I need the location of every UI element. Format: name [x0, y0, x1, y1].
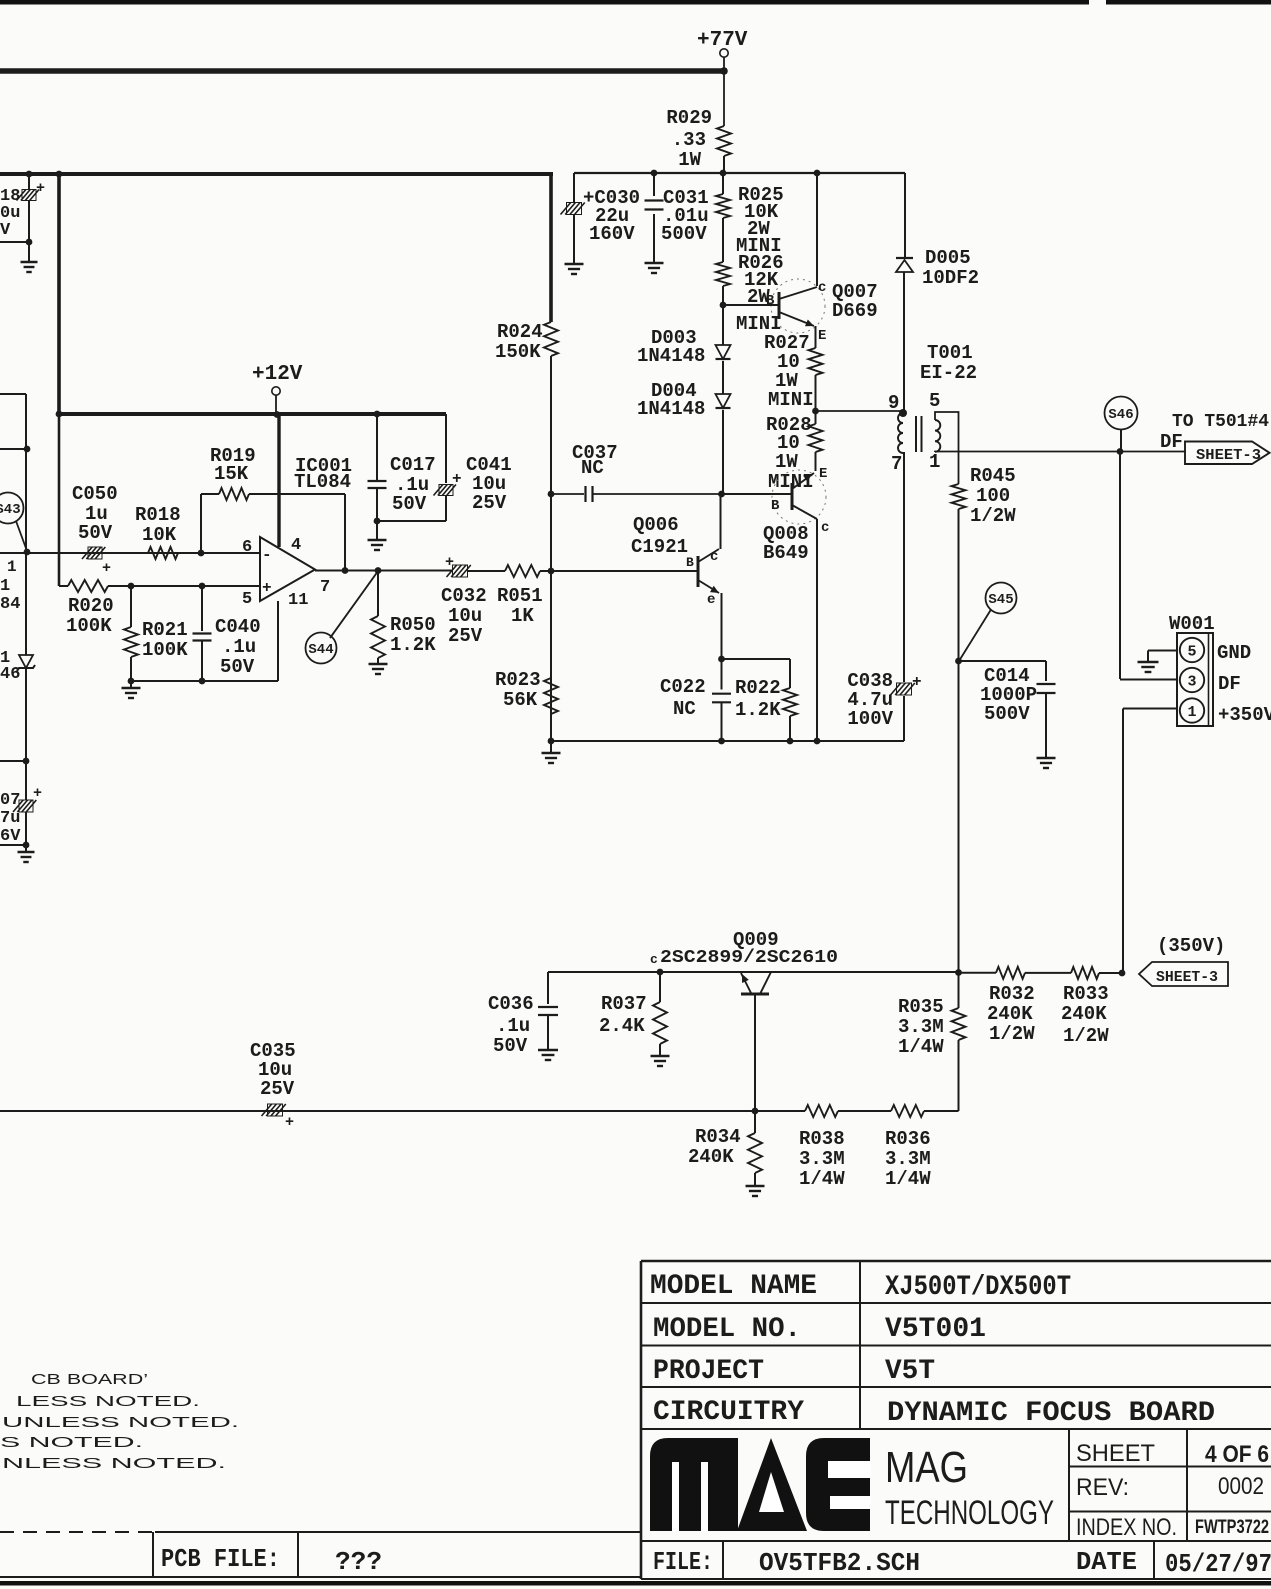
svg-text:3.3M: 3.3M	[898, 1016, 944, 1038]
svg-text:160V: 160V	[589, 223, 635, 245]
svg-text:1N4148: 1N4148	[637, 398, 705, 420]
svg-text:FILE:: FILE:	[653, 1547, 713, 1577]
svg-text:50V: 50V	[220, 656, 255, 678]
svg-text:+: +	[445, 554, 454, 571]
svg-text:CIRCUITRY: CIRCUITRY	[653, 1397, 804, 1428]
svg-text:10u: 10u	[448, 605, 482, 627]
svg-text:2.4K: 2.4K	[599, 1015, 645, 1037]
svg-text:1/4W: 1/4W	[885, 1168, 931, 1190]
svg-text:15K: 15K	[214, 463, 249, 485]
svg-text:+: +	[262, 579, 272, 597]
svg-text:+: +	[452, 470, 462, 488]
svg-text:TECHNOLOGY: TECHNOLOGY	[885, 1494, 1054, 1532]
svg-text:1/4W: 1/4W	[799, 1168, 845, 1190]
svg-text:S46: S46	[1108, 407, 1133, 423]
svg-text:R050: R050	[390, 614, 436, 636]
svg-text:MINI: MINI	[768, 389, 814, 411]
svg-text:.1u: .1u	[222, 636, 256, 658]
svg-text:REV:: REV:	[1076, 1474, 1129, 1501]
svg-text:Q006: Q006	[633, 514, 679, 536]
svg-text:???: ???	[335, 1547, 382, 1577]
svg-text:T001: T001	[927, 342, 973, 364]
svg-text:R033: R033	[1063, 983, 1109, 1005]
svg-text:c: c	[710, 549, 718, 565]
svg-text:5: 5	[929, 390, 940, 412]
svg-text:E: E	[819, 466, 827, 482]
svg-text:3.3M: 3.3M	[799, 1148, 845, 1170]
svg-text:.33: .33	[672, 129, 706, 151]
svg-text:R020: R020	[68, 595, 114, 617]
svg-text:INDEX NO.: INDEX NO.	[1076, 1514, 1177, 1541]
svg-text:B: B	[766, 293, 775, 309]
svg-text:C050: C050	[72, 483, 118, 505]
svg-text:C036: C036	[488, 993, 534, 1015]
svg-text:+: +	[912, 673, 922, 691]
svg-text:4: 4	[291, 536, 301, 555]
svg-text:S43: S43	[0, 502, 21, 518]
svg-text:1/2W: 1/2W	[970, 505, 1016, 527]
svg-text:R021: R021	[142, 619, 188, 641]
svg-text:+: +	[33, 785, 42, 802]
svg-text:7: 7	[891, 453, 902, 475]
svg-text:1K: 1K	[511, 605, 534, 627]
svg-text:PROJECT: PROJECT	[653, 1356, 764, 1387]
svg-text:240K: 240K	[987, 1003, 1033, 1025]
svg-text:+: +	[102, 560, 111, 577]
svg-text:SHEET-3: SHEET-3	[1156, 969, 1218, 986]
svg-text:6V: 6V	[0, 827, 21, 846]
svg-text:100K: 100K	[142, 639, 188, 661]
svg-text:DF: DF	[1218, 673, 1241, 695]
svg-text:(350V): (350V)	[1157, 935, 1225, 957]
svg-text:S NOTED.: S NOTED.	[0, 1434, 143, 1451]
svg-text:S44: S44	[308, 642, 333, 658]
svg-text:-: -	[262, 546, 272, 564]
svg-text:XJ500T/DX500T: XJ500T/DX500T	[885, 1272, 1071, 1303]
svg-text:1/4W: 1/4W	[898, 1036, 944, 1058]
svg-text:NC: NC	[581, 457, 604, 479]
svg-text:10K: 10K	[142, 524, 177, 546]
svg-text:B: B	[686, 555, 694, 570]
svg-text:0002: 0002	[1218, 1473, 1264, 1500]
svg-text:R045: R045	[970, 465, 1016, 487]
svg-text:7: 7	[320, 578, 330, 597]
svg-text:R032: R032	[989, 983, 1035, 1005]
svg-text:25V: 25V	[260, 1078, 295, 1100]
svg-text:1/2W: 1/2W	[1063, 1025, 1109, 1047]
svg-text:.1u: .1u	[496, 1015, 530, 1037]
svg-text:MODEL NAME: MODEL NAME	[650, 1271, 817, 1302]
svg-text:5: 5	[242, 590, 252, 609]
svg-text:SHEET: SHEET	[1076, 1440, 1155, 1467]
svg-text:10DF2: 10DF2	[922, 267, 979, 289]
svg-text:V: V	[0, 221, 11, 240]
svg-text:1: 1	[929, 451, 940, 473]
svg-text:56K: 56K	[503, 689, 538, 711]
svg-text:C022: C022	[660, 676, 706, 698]
svg-text:MODEL NO.: MODEL NO.	[653, 1314, 801, 1345]
svg-text:R022: R022	[735, 677, 781, 699]
svg-text:D005: D005	[925, 247, 971, 269]
svg-text:B649: B649	[763, 542, 809, 564]
svg-text:DF: DF	[1160, 431, 1183, 453]
svg-text:MAG: MAG	[885, 1443, 968, 1492]
svg-text:DYNAMIC FOCUS BOARD: DYNAMIC FOCUS BOARD	[887, 1398, 1215, 1429]
svg-text:+: +	[36, 180, 45, 197]
svg-text:R029: R029	[666, 107, 712, 129]
svg-text:1: 1	[1187, 704, 1196, 721]
svg-text:3: 3	[1187, 674, 1196, 691]
svg-text:1.2K: 1.2K	[735, 699, 781, 721]
svg-text:25V: 25V	[472, 492, 507, 514]
svg-text:TO T501#4: TO T501#4	[1172, 412, 1269, 432]
svg-text:25V: 25V	[448, 625, 483, 647]
svg-text:240K: 240K	[1061, 1003, 1107, 1025]
svg-text:1: 1	[0, 577, 10, 596]
svg-text:+12V: +12V	[252, 363, 303, 386]
svg-text:V5T001: V5T001	[885, 1314, 986, 1345]
svg-text:R035: R035	[898, 996, 944, 1018]
svg-text:1W: 1W	[775, 451, 798, 473]
svg-text:R036: R036	[885, 1128, 931, 1150]
svg-text:S45: S45	[988, 592, 1013, 608]
svg-text:e: e	[707, 592, 715, 608]
svg-text:DATE: DATE	[1076, 1547, 1137, 1577]
svg-text:c: c	[818, 280, 826, 296]
svg-text:+: +	[285, 1114, 294, 1131]
svg-text:1N4148: 1N4148	[637, 345, 705, 367]
svg-text:240K: 240K	[688, 1146, 734, 1168]
svg-text:500V: 500V	[984, 703, 1030, 725]
svg-text:1W: 1W	[678, 149, 701, 171]
svg-text:W001: W001	[1169, 613, 1215, 635]
svg-text:100V: 100V	[847, 708, 893, 730]
svg-text:R018: R018	[135, 504, 181, 526]
svg-text:R023: R023	[495, 669, 541, 691]
svg-text:150K: 150K	[495, 341, 541, 363]
svg-text:1.2K: 1.2K	[390, 634, 436, 656]
svg-text:GND: GND	[1217, 642, 1251, 664]
svg-text:100: 100	[976, 485, 1010, 507]
svg-text:CB BOARD’: CB BOARD’	[31, 1371, 148, 1388]
svg-text:V5T: V5T	[885, 1356, 935, 1387]
svg-text:OV5TFB2.SCH: OV5TFB2.SCH	[759, 1548, 920, 1578]
svg-text:11: 11	[288, 591, 308, 610]
svg-text:R037: R037	[601, 993, 647, 1015]
svg-text:C017: C017	[390, 454, 436, 476]
svg-text:50V: 50V	[78, 522, 113, 544]
svg-text:+77V: +77V	[697, 29, 748, 52]
svg-text:D669: D669	[832, 300, 878, 322]
svg-text:R051: R051	[497, 585, 543, 607]
svg-text:C1921: C1921	[631, 536, 688, 558]
svg-text:100K: 100K	[66, 615, 112, 637]
svg-text:9: 9	[888, 392, 899, 414]
svg-text:SHEET-3: SHEET-3	[1196, 447, 1261, 464]
svg-text:46: 46	[0, 665, 20, 684]
svg-text:3.3M: 3.3M	[885, 1148, 931, 1170]
svg-text:R034: R034	[695, 1126, 741, 1148]
svg-text:1: 1	[7, 558, 17, 576]
svg-text:7u: 7u	[0, 809, 20, 828]
svg-text:EI-22: EI-22	[920, 362, 977, 384]
svg-text:PCB FILE:: PCB FILE:	[161, 1544, 280, 1574]
svg-text:R024: R024	[497, 321, 543, 343]
svg-text:50V: 50V	[493, 1035, 528, 1057]
svg-text:UNLESS NOTED.: UNLESS NOTED.	[2, 1414, 239, 1431]
svg-text:07: 07	[0, 791, 20, 810]
svg-text:c: c	[821, 520, 829, 536]
svg-text:c: c	[650, 952, 658, 967]
svg-text:FWTP3722: FWTP3722	[1195, 1517, 1269, 1538]
svg-text:LESS NOTED.: LESS NOTED.	[16, 1393, 200, 1410]
svg-text:B: B	[771, 498, 780, 514]
svg-text:NLESS NOTED.: NLESS NOTED.	[2, 1455, 226, 1472]
svg-text:C040: C040	[215, 616, 261, 638]
svg-text:E: E	[818, 328, 826, 344]
svg-text:4 OF 6: 4 OF 6	[1205, 1441, 1269, 1468]
svg-text:5: 5	[1187, 644, 1196, 661]
svg-text:TL084: TL084	[294, 471, 351, 493]
svg-text:C032: C032	[441, 585, 487, 607]
svg-text:6: 6	[242, 538, 252, 557]
svg-text:05/27/97: 05/27/97	[1165, 1549, 1271, 1579]
svg-text:2SC2899/2SC2610: 2SC2899/2SC2610	[660, 948, 838, 968]
svg-text:84: 84	[0, 595, 20, 614]
svg-text:+350V: +350V	[1218, 704, 1271, 726]
svg-text:NC: NC	[673, 698, 696, 720]
svg-text:50V: 50V	[392, 493, 427, 515]
svg-text:500V: 500V	[661, 223, 707, 245]
svg-text:R038: R038	[799, 1128, 845, 1150]
svg-text:1/2W: 1/2W	[989, 1023, 1035, 1045]
